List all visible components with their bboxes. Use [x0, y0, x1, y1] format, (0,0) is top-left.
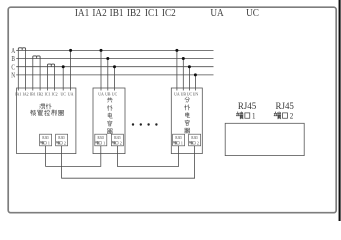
svg-text:IA1: IA1: [15, 91, 21, 96]
svg-text:2: 2: [120, 140, 122, 145]
svg-text:IC2: IC2: [162, 8, 176, 20]
svg-text:UA: UA: [210, 8, 224, 20]
right page edge line: [339, 0, 341, 221]
hybrid compensation controller box: [17, 88, 76, 154]
svg-text:RJ45: RJ45: [114, 136, 121, 140]
svg-text:RJ45: RJ45: [191, 136, 198, 140]
svg-text:2: 2: [290, 111, 294, 121]
svg-text:IC2: IC2: [52, 91, 58, 96]
junction dot on phase N: [194, 73, 197, 76]
RJ45 port 2 of common capacitor: [111, 134, 123, 146]
junction dot on phase A: [100, 49, 103, 52]
svg-text:RJ45: RJ45: [276, 101, 295, 111]
svg-text:1: 1: [48, 140, 50, 145]
svg-text:RJ45: RJ45: [98, 136, 105, 140]
svg-text:IA2: IA2: [92, 8, 106, 20]
current transformer TC on phase C: [48, 64, 55, 67]
svg-text:RJ45: RJ45: [58, 136, 65, 140]
svg-text:UN: UN: [193, 91, 199, 96]
wire split-capacitor UA tap: [176, 50, 178, 90]
svg-text:1: 1: [103, 140, 105, 145]
svg-text:1: 1: [252, 111, 256, 121]
svg-text:1: 1: [181, 140, 183, 145]
bus line B: [16, 58, 213, 60]
junction dot UA on phase A: [69, 49, 72, 52]
svg-text:N: N: [11, 72, 15, 80]
svg-text:UB: UB: [181, 91, 187, 96]
wire UC tap: [62, 67, 64, 91]
wire common-capacitor UC tap: [114, 67, 116, 91]
svg-text:A: A: [11, 47, 15, 55]
svg-text:IA1: IA1: [75, 8, 89, 20]
svg-text:C: C: [11, 64, 15, 72]
wire split-capacitor UC tap: [188, 67, 190, 91]
svg-text:UC: UC: [112, 91, 118, 96]
svg-text:IB1: IB1: [110, 8, 124, 20]
svg-text:IC1: IC1: [145, 8, 159, 20]
current transformer TA on phase A: [18, 48, 25, 51]
svg-text:UA: UA: [174, 91, 180, 96]
svg-text:UA: UA: [68, 91, 74, 96]
svg-text:UB: UB: [105, 91, 111, 96]
svg-text:IB2: IB2: [37, 91, 43, 96]
bus line C: [16, 66, 213, 68]
junction dot on phase B: [106, 57, 109, 60]
ellipsis dots: [132, 123, 134, 125]
bus line N: [16, 74, 213, 76]
RJ45 port 2 of controller: [56, 134, 68, 146]
svg-text:IC1: IC1: [45, 91, 51, 96]
svg-text:IB1: IB1: [30, 91, 36, 96]
svg-text:RJ45: RJ45: [175, 136, 182, 140]
wire UA tap: [70, 50, 72, 90]
RJ45 port 1 of controller: [40, 134, 52, 146]
legend empty box: [225, 123, 304, 155]
svg-text:IB2: IB2: [127, 8, 141, 20]
wire split-capacitor UN tap: [194, 75, 196, 91]
vertical title 分补电容器: [185, 97, 190, 102]
svg-text:B: B: [11, 56, 15, 64]
junction dot on phase A: [175, 49, 178, 52]
svg-text:UC: UC: [246, 8, 259, 20]
junction dot on phase C: [188, 65, 191, 68]
svg-text:RJ45: RJ45: [42, 136, 49, 140]
svg-text:UC: UC: [60, 91, 66, 96]
wire common capacitor port2 to split capacitor port1: [117, 146, 178, 167]
svg-text:2: 2: [197, 140, 199, 145]
RJ45 port 2 of split capacitor: [189, 134, 201, 146]
controller title line1 混补: [40, 104, 45, 109]
svg-text:RJ45: RJ45: [238, 101, 257, 111]
current transformer TB on phase B: [33, 56, 40, 59]
svg-text:2: 2: [64, 140, 66, 145]
wire common-capacitor UB tap: [107, 59, 109, 91]
svg-text:UA: UA: [98, 91, 104, 96]
wire controller port1 to common capacitor port1: [46, 146, 101, 167]
junction dot on phase B: [182, 57, 185, 60]
wire split-capacitor UB tap: [182, 59, 184, 91]
RJ45 port 1 of common capacitor: [95, 134, 107, 146]
svg-text:UC: UC: [187, 91, 193, 96]
junction dot on phase C: [113, 65, 116, 68]
wire controller port2 to split capacitor port2: [62, 146, 195, 178]
controller title line2 装置控制器: [31, 110, 36, 116]
bus line A: [16, 49, 213, 51]
svg-text:IA2: IA2: [23, 91, 29, 96]
wire common-capacitor UA tap: [100, 50, 102, 90]
common compensation capacitor box: [93, 88, 125, 154]
junction dot UC on phase C: [62, 65, 65, 68]
RJ45 port 1 of split capacitor: [173, 134, 185, 146]
split compensation capacitor box: [171, 88, 202, 154]
vertical title 共补电容器: [107, 98, 112, 103]
